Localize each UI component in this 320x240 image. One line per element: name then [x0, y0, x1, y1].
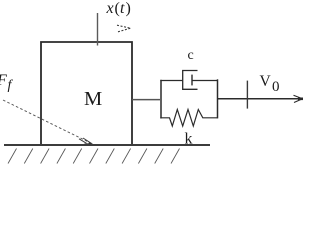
svg-text:k: k [185, 131, 193, 148]
svg-text:F: F [0, 72, 7, 89]
svg-text:V: V [260, 73, 272, 90]
svg-text:c: c [188, 48, 194, 63]
svg-text:x: x [106, 0, 114, 17]
svg-text:): ) [126, 0, 131, 17]
svg-text:0: 0 [272, 79, 280, 95]
svg-text:f: f [8, 78, 14, 93]
svg-text:M: M [84, 88, 102, 110]
svg-text:t: t [120, 0, 125, 17]
